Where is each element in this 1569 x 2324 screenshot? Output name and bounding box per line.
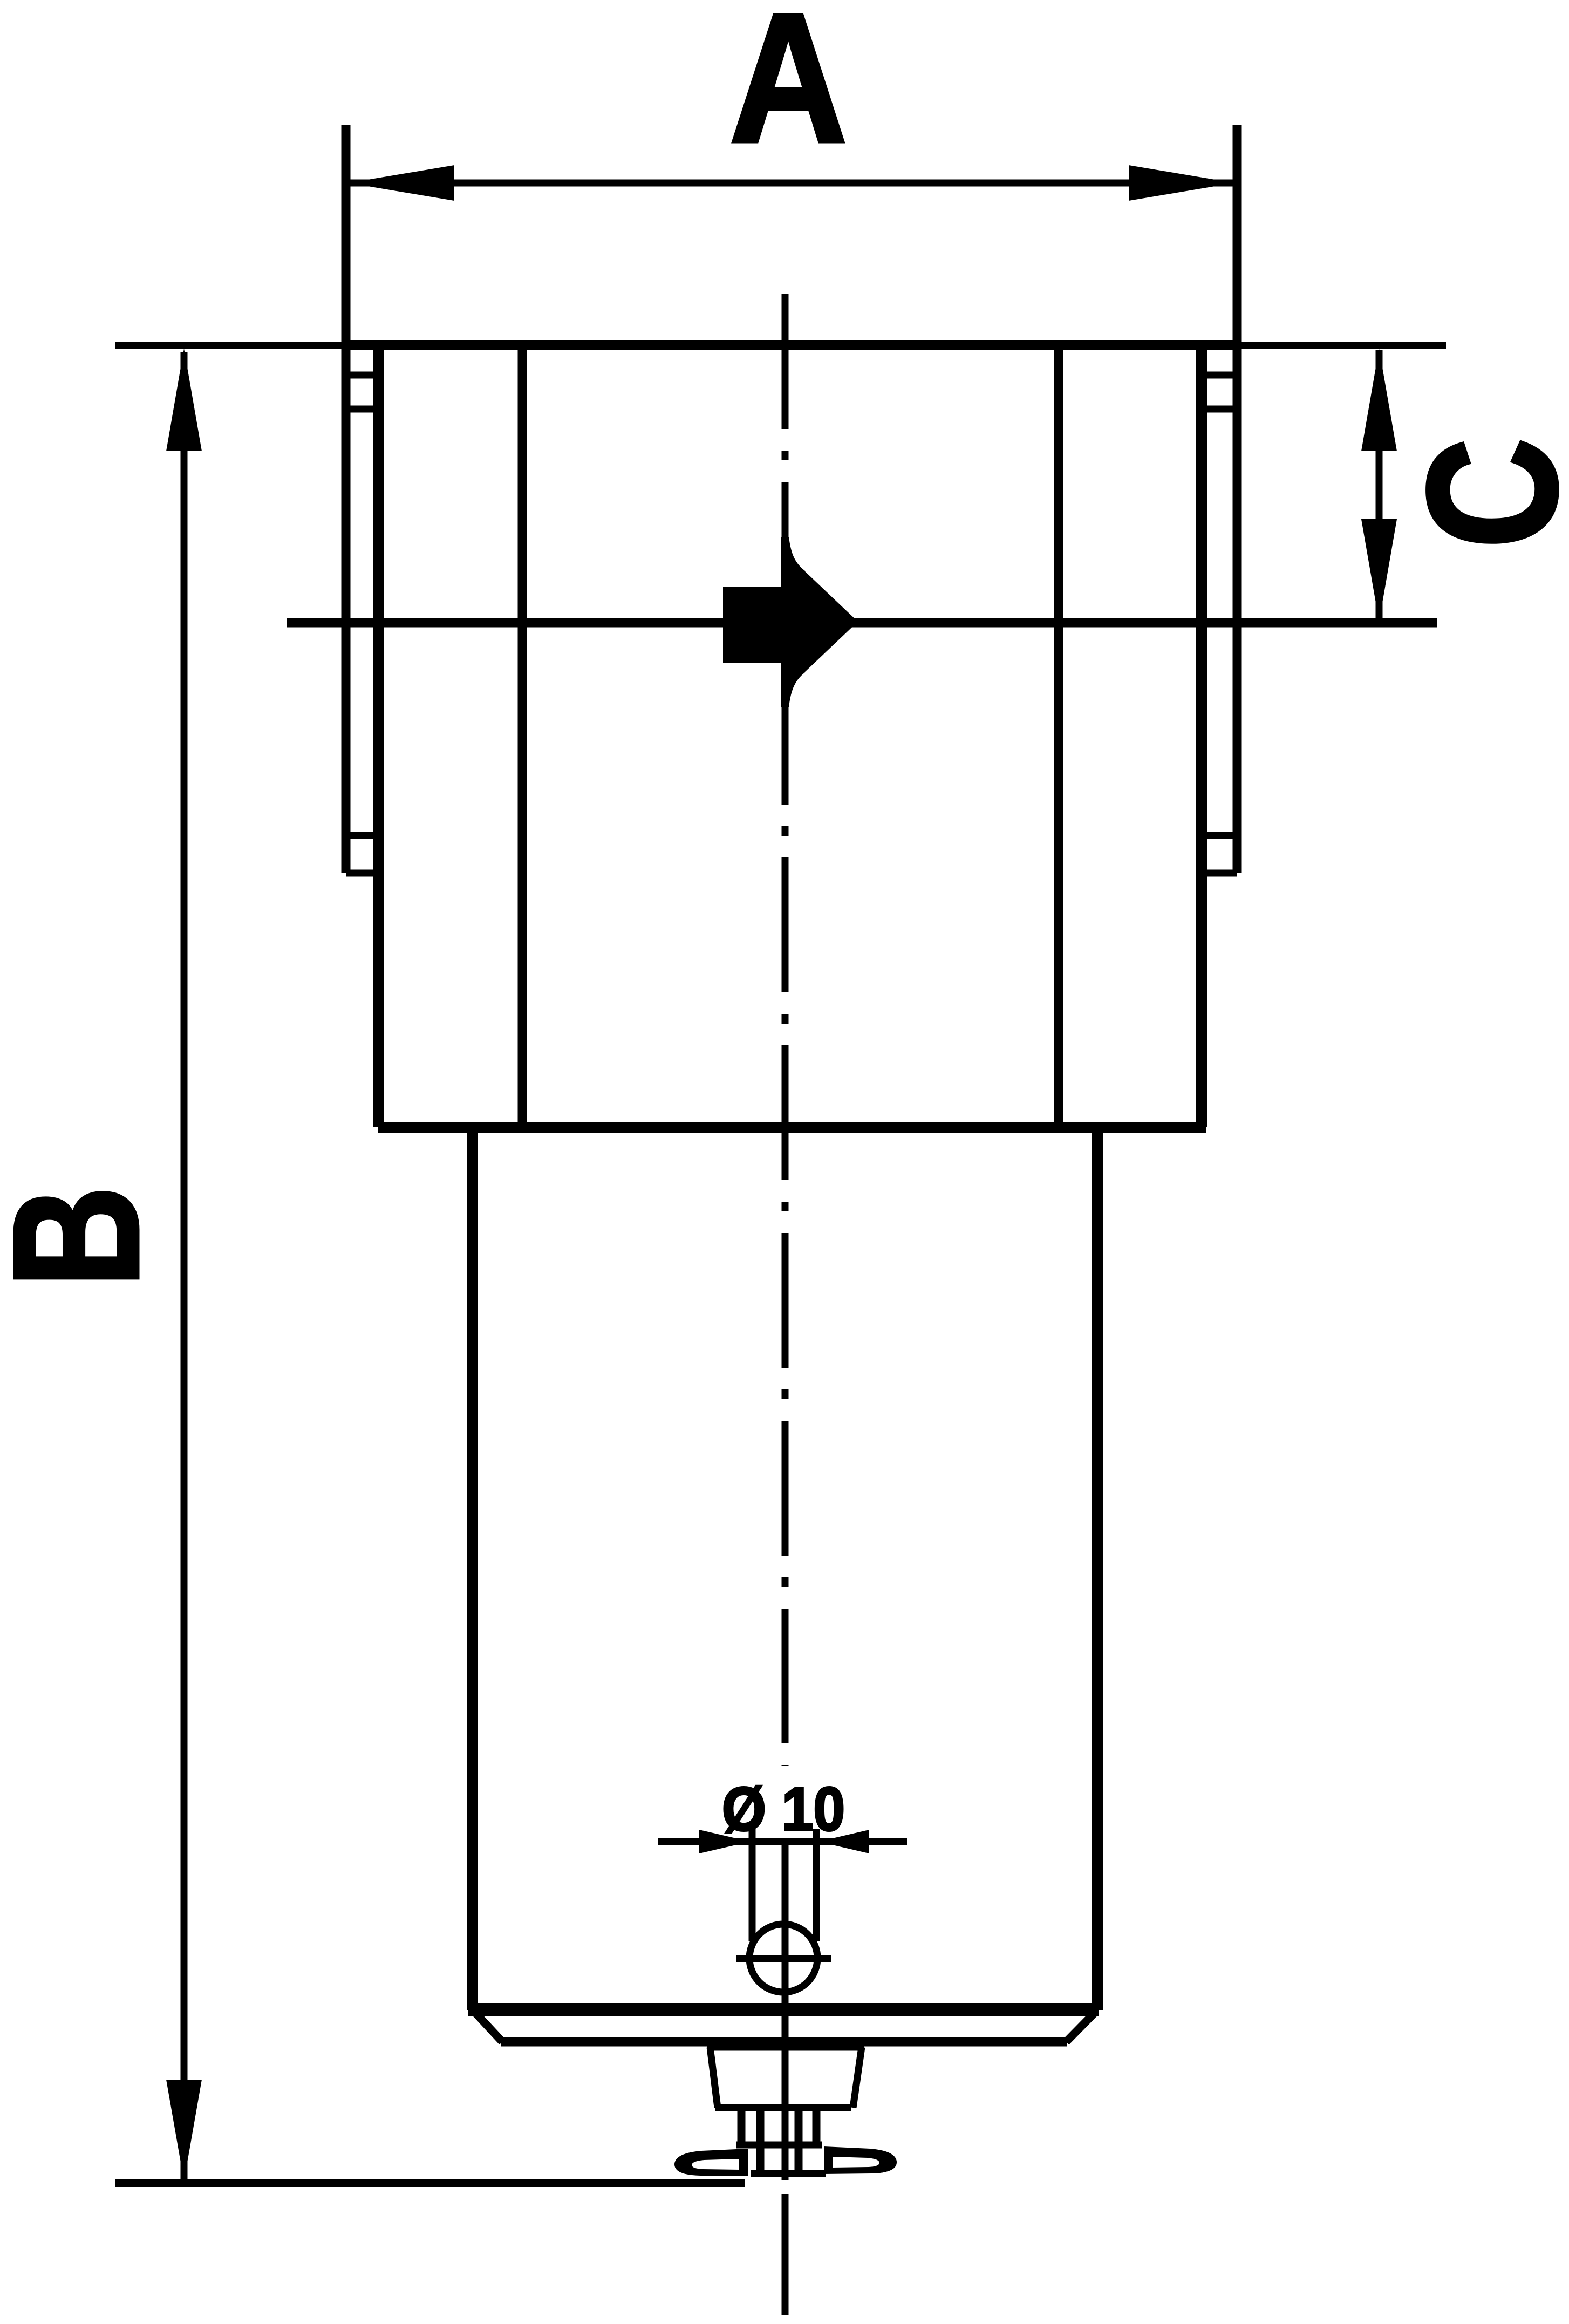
svg-text:Ø 10: Ø 10 [722,1775,845,1844]
svg-text:A: A [729,0,847,181]
svg-text:B: B [0,1186,175,1287]
svg-text:C: C [1390,438,1569,549]
